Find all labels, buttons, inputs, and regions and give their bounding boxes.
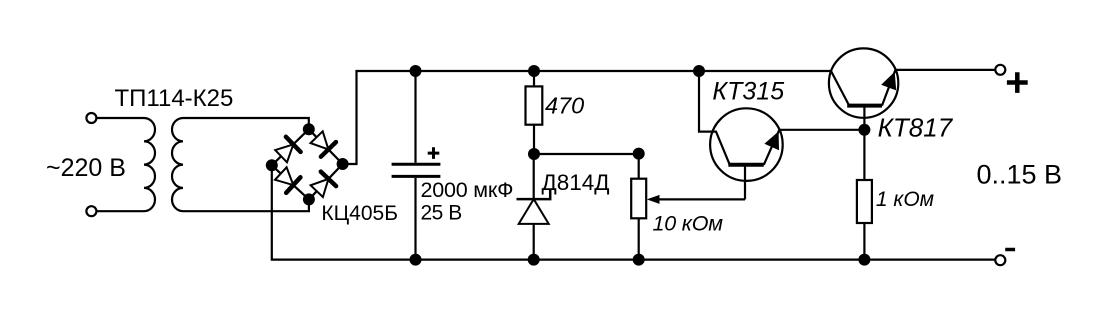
svg-text:470: 470 [545, 93, 584, 119]
svg-text:~220 В: ~220 В [46, 154, 126, 182]
svg-text:10 кОм: 10 кОм [653, 211, 724, 235]
svg-text:КЦ405Б: КЦ405Б [321, 202, 398, 225]
svg-text:КТ817: КТ817 [878, 113, 954, 143]
svg-text:КТ315: КТ315 [712, 78, 784, 106]
svg-text:2000 мкФ: 2000 мкФ [421, 178, 514, 202]
svg-text:Д814Д: Д814Д [542, 170, 610, 195]
svg-text:1 кОм: 1 кОм [876, 188, 934, 211]
svg-text:25 В: 25 В [421, 201, 462, 224]
svg-text:ТП114-К25: ТП114-К25 [115, 85, 234, 112]
svg-text:0..15 В: 0..15 В [977, 160, 1063, 190]
